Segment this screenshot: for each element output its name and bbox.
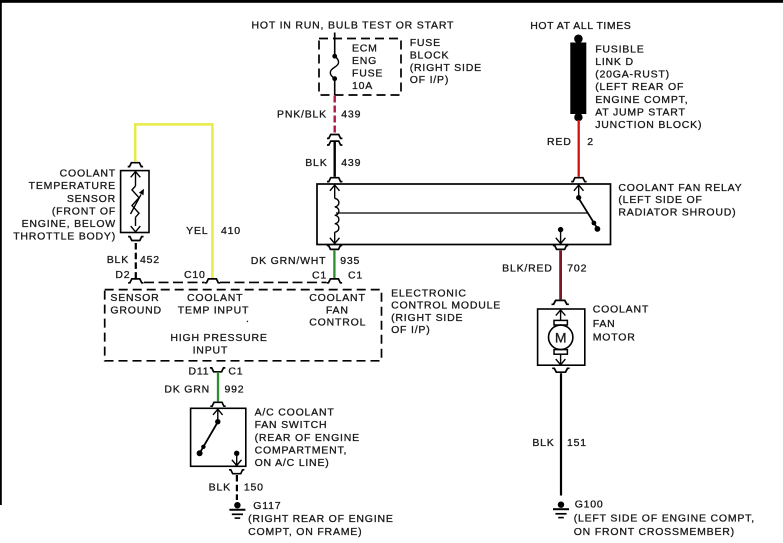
svg-text:150: 150: [244, 482, 264, 494]
A/C coolant fan switch box: [191, 408, 246, 466]
svg-text:FAN: FAN: [593, 318, 616, 330]
wire RED 2: [578, 120, 580, 177]
svg-text:10A: 10A: [352, 80, 373, 92]
svg-text:PNK/BLK: PNK/BLK: [277, 108, 327, 120]
connector at motor top: [551, 300, 568, 304]
connector below A/C switch: [229, 470, 244, 474]
svg-text:ELECTRONIC: ELECTRONIC: [391, 287, 467, 299]
connector D2 at ECM: [128, 279, 143, 283]
connector C10 at ECM: [205, 279, 220, 283]
svg-text:COMPT, ON FRAME): COMPT, ON FRAME): [248, 526, 362, 538]
svg-text:G117: G117: [253, 500, 281, 512]
svg-text:410: 410: [221, 225, 241, 237]
svg-text:ECM: ECM: [352, 42, 378, 54]
fusible link D body: [570, 43, 586, 115]
svg-text:AT JUMP START: AT JUMP START: [595, 106, 686, 118]
svg-text:COOLANT FAN RELAY: COOLANT FAN RELAY: [618, 182, 742, 194]
svg-text:BLK: BLK: [305, 157, 327, 169]
ECM connector face dashed line: [144, 281, 205, 283]
svg-text:BLK: BLK: [107, 254, 129, 266]
ECM dashed box: [105, 290, 382, 361]
connector D11/C1 at ECM bottom: [210, 368, 225, 372]
ground G117: [229, 502, 245, 518]
relay coil: [330, 185, 340, 244]
fusible link location text: [595, 43, 702, 131]
ground G100: [553, 502, 569, 518]
svg-text:SENSOR: SENSOR: [67, 193, 116, 205]
svg-text:CONTROL MODULE: CONTROL MODULE: [391, 300, 501, 312]
relay output terminal: [556, 227, 566, 244]
connector at relay switch terminal: [571, 178, 586, 182]
svg-text:OF I/P): OF I/P): [391, 324, 430, 336]
svg-text:GROUND: GROUND: [110, 305, 161, 317]
svg-text:C1: C1: [312, 270, 327, 282]
svg-text:ENG: ENG: [352, 55, 377, 67]
connector C1 at ECM: [327, 279, 342, 283]
svg-text:C1: C1: [348, 270, 363, 282]
wire BLK 439: [334, 141, 336, 177]
svg-text:(RIGHT SIDE: (RIGHT SIDE: [391, 312, 463, 324]
svg-text:(20GA-RUST): (20GA-RUST): [595, 69, 670, 81]
svg-text:439: 439: [341, 108, 361, 120]
svg-text:COOLANT: COOLANT: [60, 168, 116, 180]
svg-text:C1: C1: [228, 365, 243, 377]
svg-text:SENSOR: SENSOR: [110, 292, 159, 304]
svg-text:COMPARTMENT,: COMPARTMENT,: [255, 445, 348, 457]
connector below relay coil: [327, 246, 342, 250]
svg-text:LINK D: LINK D: [595, 56, 634, 68]
fuse block location text: [410, 37, 482, 86]
svg-text:2: 2: [587, 136, 594, 148]
wire PNK/BLK 439: [334, 96, 336, 134]
svg-text:BLK/RED: BLK/RED: [502, 262, 553, 274]
inline connector lower half: [327, 141, 342, 145]
connector below relay switch: [553, 246, 568, 250]
svg-text:D11: D11: [189, 365, 210, 377]
svg-text:INPUT: INPUT: [193, 344, 229, 356]
fusible link D dot top: [574, 35, 583, 44]
svg-text:THROTTLE BODY): THROTTLE BODY): [13, 231, 116, 243]
motor M: [549, 310, 573, 365]
svg-text:BLOCK: BLOCK: [410, 50, 450, 62]
svg-text:CONTROL: CONTROL: [309, 316, 366, 328]
svg-text:DK GRN: DK GRN: [164, 383, 210, 395]
svg-text:RADIATOR SHROUD): RADIATOR SHROUD): [618, 207, 736, 219]
svg-text:935: 935: [340, 255, 360, 267]
svg-text:RED: RED: [547, 136, 572, 148]
svg-text:ENGINE COMPT,: ENGINE COMPT,: [595, 94, 688, 106]
svg-text:ON FRONT CROSSMEMBER): ON FRONT CROSSMEMBER): [574, 526, 735, 538]
svg-text:(RIGHT REAR OF ENGINE: (RIGHT REAR OF ENGINE: [248, 513, 394, 525]
relay switch: [574, 185, 600, 232]
page border top: [0, 0, 783, 3]
sensor feed yellow wire YEL 410: [135, 124, 212, 278]
svg-text:HOT IN RUN, BULB TEST OR START: HOT IN RUN, BULB TEST OR START: [252, 19, 455, 31]
connector below sensor: [128, 237, 143, 241]
svg-text:COOLANT: COOLANT: [187, 292, 243, 304]
connector below motor: [552, 368, 569, 372]
A/C switch output terminal: [232, 451, 242, 466]
wire: feed drop into fuse block: [334, 33, 336, 40]
svg-text:FAN: FAN: [326, 305, 349, 317]
svg-text:C10: C10: [184, 269, 206, 281]
svg-text:992: 992: [225, 383, 245, 395]
svg-text:(REAR OF ENGINE: (REAR OF ENGINE: [255, 432, 360, 444]
svg-text:BLK: BLK: [532, 437, 554, 449]
svg-text:D2: D2: [115, 269, 130, 281]
wire BLK 151: [560, 373, 562, 495]
relay location text: [618, 182, 742, 219]
svg-text:FUSIBLE: FUSIBLE: [595, 43, 644, 55]
fuse value text: [352, 42, 383, 92]
coolant temperature sensor box: [121, 171, 149, 233]
coolant fan motor box: [538, 309, 585, 365]
connector at sensor top: [128, 163, 143, 167]
connector at A/C switch top: [210, 402, 225, 406]
page border left: [0, 0, 2, 505]
wire DK GRN 992: [217, 372, 219, 402]
svg-text:COOLANT: COOLANT: [593, 304, 649, 316]
svg-text:OF I/P): OF I/P): [410, 74, 449, 86]
svg-text:YEL: YEL: [186, 225, 208, 237]
A/C switch contacts: [197, 409, 223, 456]
svg-text:(LEFT SIDE OF: (LEFT SIDE OF: [618, 194, 702, 206]
svg-text:439: 439: [341, 157, 361, 169]
svg-text:702: 702: [567, 262, 587, 274]
motor location text: [593, 304, 649, 344]
svg-text:ON A/C LINE): ON A/C LINE): [255, 457, 330, 469]
svg-text:BLK: BLK: [209, 482, 231, 494]
sensor thermistor element: [131, 171, 145, 231]
svg-text:.: .: [246, 313, 250, 325]
svg-text:452: 452: [140, 254, 160, 266]
svg-text:151: 151: [567, 437, 587, 449]
wire BLK 452: [135, 243, 137, 278]
wire DK GRN/WHT 935: [333, 250, 335, 278]
svg-text:FUSE: FUSE: [352, 67, 383, 79]
svg-text:DK GRN/WHT: DK GRN/WHT: [251, 255, 327, 267]
wire BLK/RED 702: [559, 250, 562, 299]
svg-text:ENGINE, BELOW: ENGINE, BELOW: [22, 218, 116, 230]
svg-text:FAN SWITCH: FAN SWITCH: [255, 419, 328, 431]
fuse block dashed box: [319, 39, 401, 96]
inline connector upper half: [327, 135, 342, 139]
svg-text:(FRONT OF: (FRONT OF: [52, 205, 116, 217]
fuse ECM ENG FUSE 10A: [330, 39, 338, 96]
svg-text:(LEFT SIDE OF ENGINE COMPT,: (LEFT SIDE OF ENGINE COMPT,: [574, 512, 755, 524]
svg-text:TEMP INPUT: TEMP INPUT: [178, 305, 249, 317]
svg-text:(LEFT REAR OF: (LEFT REAR OF: [595, 81, 684, 93]
svg-text:HIGH PRESSURE: HIGH PRESSURE: [170, 332, 267, 344]
svg-text:M: M: [555, 329, 567, 345]
coolant temperature sensor label: [13, 168, 116, 243]
relay box: [317, 184, 611, 245]
svg-text:JUNCTION BLOCK): JUNCTION BLOCK): [595, 119, 702, 131]
svg-text:COOLANT: COOLANT: [309, 292, 365, 304]
svg-text:G100: G100: [575, 498, 604, 510]
ECM location text: [391, 287, 501, 336]
svg-text:A/C COOLANT: A/C COOLANT: [255, 406, 335, 418]
relay internal wire coil to switch: [336, 212, 588, 214]
svg-text:MOTOR: MOTOR: [593, 332, 636, 344]
svg-text:FUSE: FUSE: [410, 37, 441, 49]
wire BLK 150: [236, 475, 238, 500]
fusible link D dot bottom: [574, 113, 582, 121]
A/C switch location text: [255, 406, 360, 469]
svg-text:(RIGHT SIDE: (RIGHT SIDE: [410, 62, 482, 74]
svg-text:TEMPERATURE: TEMPERATURE: [29, 180, 116, 192]
svg-text:HOT AT ALL TIMES: HOT AT ALL TIMES: [530, 20, 631, 32]
connector at relay coil terminal: [327, 178, 342, 182]
